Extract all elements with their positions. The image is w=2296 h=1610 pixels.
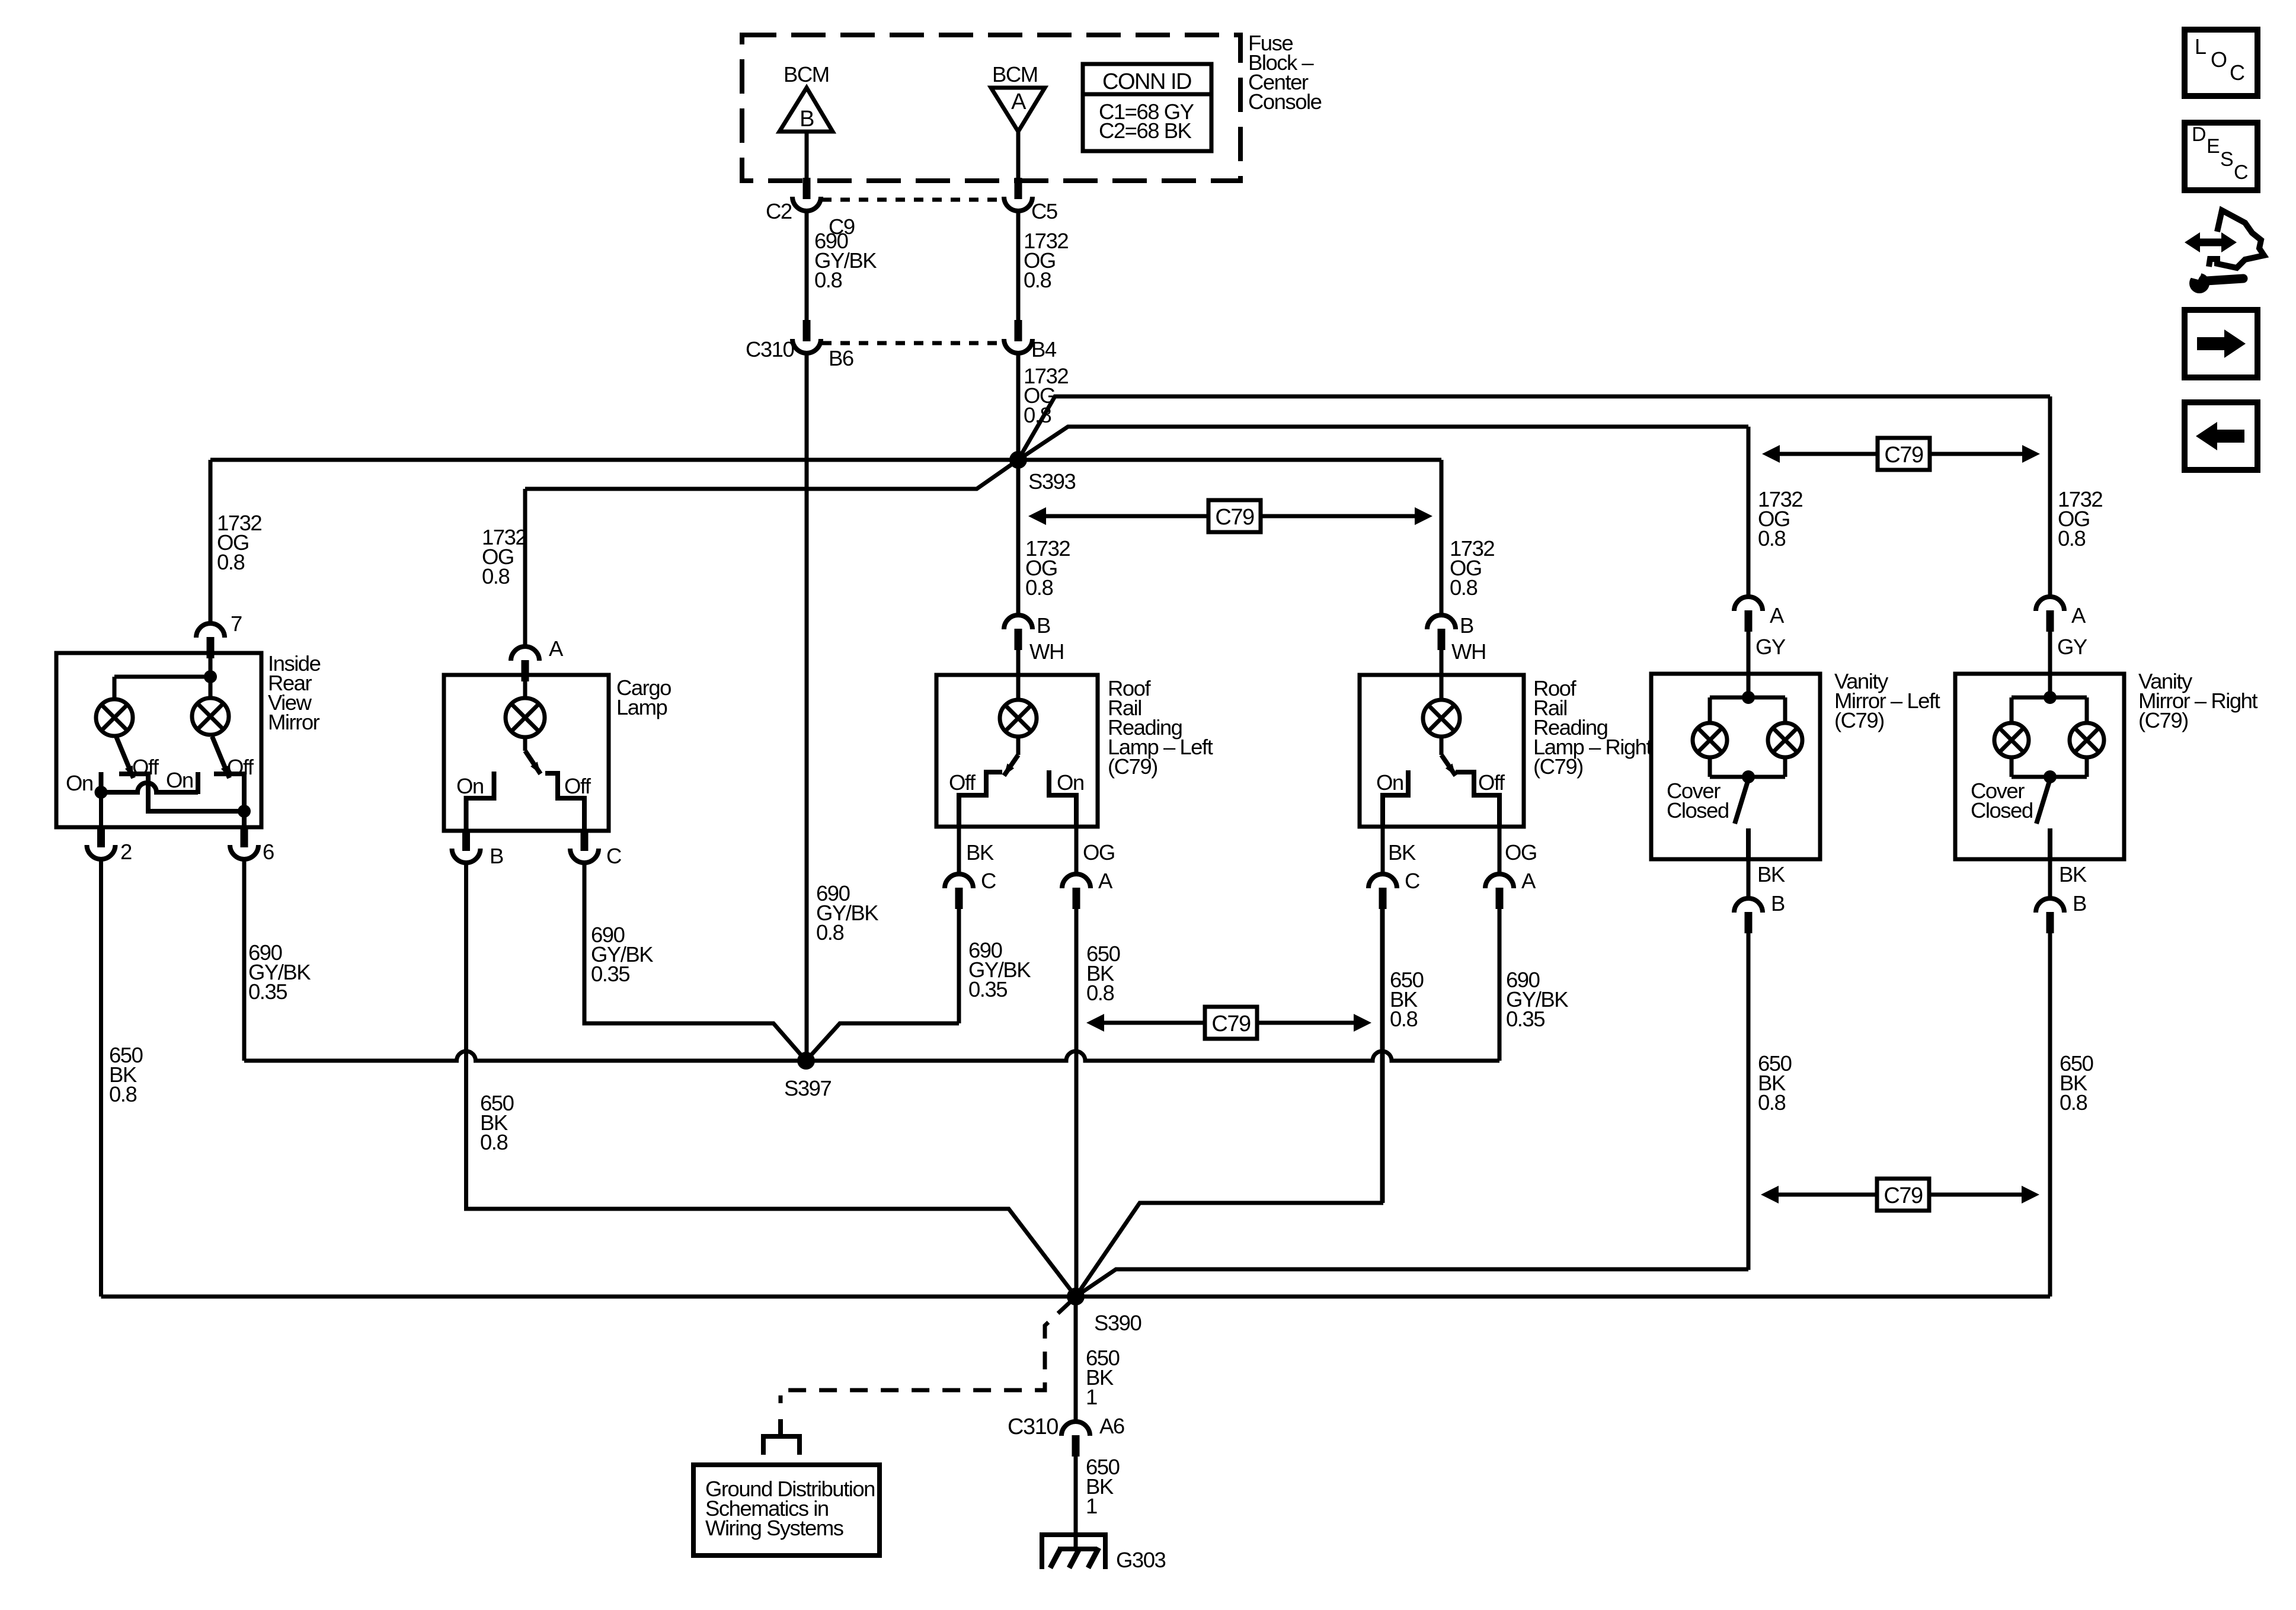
svg-text:B4: B4 bbox=[1031, 337, 1057, 361]
svg-text:Off: Off bbox=[949, 770, 976, 795]
svg-text:A: A bbox=[1521, 869, 1536, 893]
svg-text:S390: S390 bbox=[1094, 1311, 1141, 1335]
svg-text:B: B bbox=[490, 844, 503, 868]
svg-text:B: B bbox=[1037, 613, 1050, 638]
svg-text:L: L bbox=[2195, 34, 2206, 59]
svg-text:BK: BK bbox=[1388, 840, 1416, 865]
svg-text:On: On bbox=[1376, 770, 1403, 795]
svg-text:OG: OG bbox=[1083, 840, 1115, 865]
svg-text:Off: Off bbox=[564, 774, 591, 798]
svg-text:B: B bbox=[1771, 891, 1785, 916]
svg-text:On: On bbox=[1057, 770, 1084, 795]
svg-text:C: C bbox=[606, 844, 621, 868]
svg-text:On: On bbox=[66, 771, 93, 795]
svg-text:CONN ID: CONN ID bbox=[1102, 69, 1191, 94]
svg-text:A: A bbox=[1011, 89, 1027, 114]
svg-text:GY: GY bbox=[2057, 635, 2087, 659]
svg-text:BCM: BCM bbox=[992, 62, 1038, 87]
svg-text:D: D bbox=[2192, 123, 2205, 146]
svg-text:C2=68 BK: C2=68 BK bbox=[1099, 119, 1192, 143]
svg-text:On: On bbox=[166, 768, 193, 792]
svg-text:S397: S397 bbox=[784, 1076, 831, 1100]
svg-text:2: 2 bbox=[120, 840, 132, 864]
svg-text:A: A bbox=[2071, 603, 2086, 628]
svg-text:BK: BK bbox=[966, 840, 994, 865]
svg-text:BK: BK bbox=[1757, 862, 1785, 886]
svg-text:WH: WH bbox=[1029, 639, 1064, 664]
svg-text:Off: Off bbox=[1478, 770, 1505, 795]
svg-text:C310: C310 bbox=[1008, 1414, 1058, 1439]
svg-text:BK: BK bbox=[2059, 862, 2087, 886]
svg-text:C310: C310 bbox=[746, 337, 794, 361]
svg-text:7: 7 bbox=[231, 612, 242, 636]
svg-text:O: O bbox=[2211, 47, 2227, 72]
svg-text:E: E bbox=[2207, 135, 2220, 158]
svg-text:C79: C79 bbox=[1211, 1012, 1251, 1036]
svg-text:C: C bbox=[2234, 161, 2248, 184]
svg-text:B: B bbox=[2073, 891, 2086, 916]
svg-text:C5: C5 bbox=[1031, 199, 1057, 223]
svg-text:S393: S393 bbox=[1028, 469, 1075, 494]
svg-text:C: C bbox=[981, 869, 996, 893]
svg-text:C79: C79 bbox=[1884, 1183, 1923, 1208]
svg-text:WH: WH bbox=[1451, 639, 1486, 664]
svg-text:BCM: BCM bbox=[784, 62, 829, 87]
svg-text:B: B bbox=[1460, 613, 1473, 638]
svg-text:B6: B6 bbox=[829, 346, 853, 370]
svg-text:C: C bbox=[1405, 869, 1419, 893]
svg-text:On: On bbox=[456, 774, 484, 798]
svg-text:G303: G303 bbox=[1116, 1548, 1165, 1572]
svg-text:A: A bbox=[549, 636, 564, 661]
svg-text:A6: A6 bbox=[1099, 1414, 1124, 1438]
svg-text:GY: GY bbox=[1755, 635, 1786, 659]
svg-text:6: 6 bbox=[263, 840, 274, 864]
svg-text:C79: C79 bbox=[1215, 505, 1254, 530]
svg-text:A: A bbox=[1098, 869, 1113, 893]
svg-text:C2: C2 bbox=[766, 199, 792, 223]
svg-text:CoverClosed: CoverClosed bbox=[1971, 779, 2033, 822]
svg-text:A: A bbox=[1770, 603, 1785, 628]
svg-text:CargoLamp: CargoLamp bbox=[616, 676, 671, 719]
svg-text:S: S bbox=[2220, 148, 2233, 171]
svg-text:CoverClosed: CoverClosed bbox=[1667, 779, 1729, 822]
svg-text:C: C bbox=[2230, 60, 2244, 85]
svg-text:B: B bbox=[800, 107, 814, 132]
svg-text:OG: OG bbox=[1505, 840, 1537, 865]
svg-text:C79: C79 bbox=[1884, 443, 1923, 468]
